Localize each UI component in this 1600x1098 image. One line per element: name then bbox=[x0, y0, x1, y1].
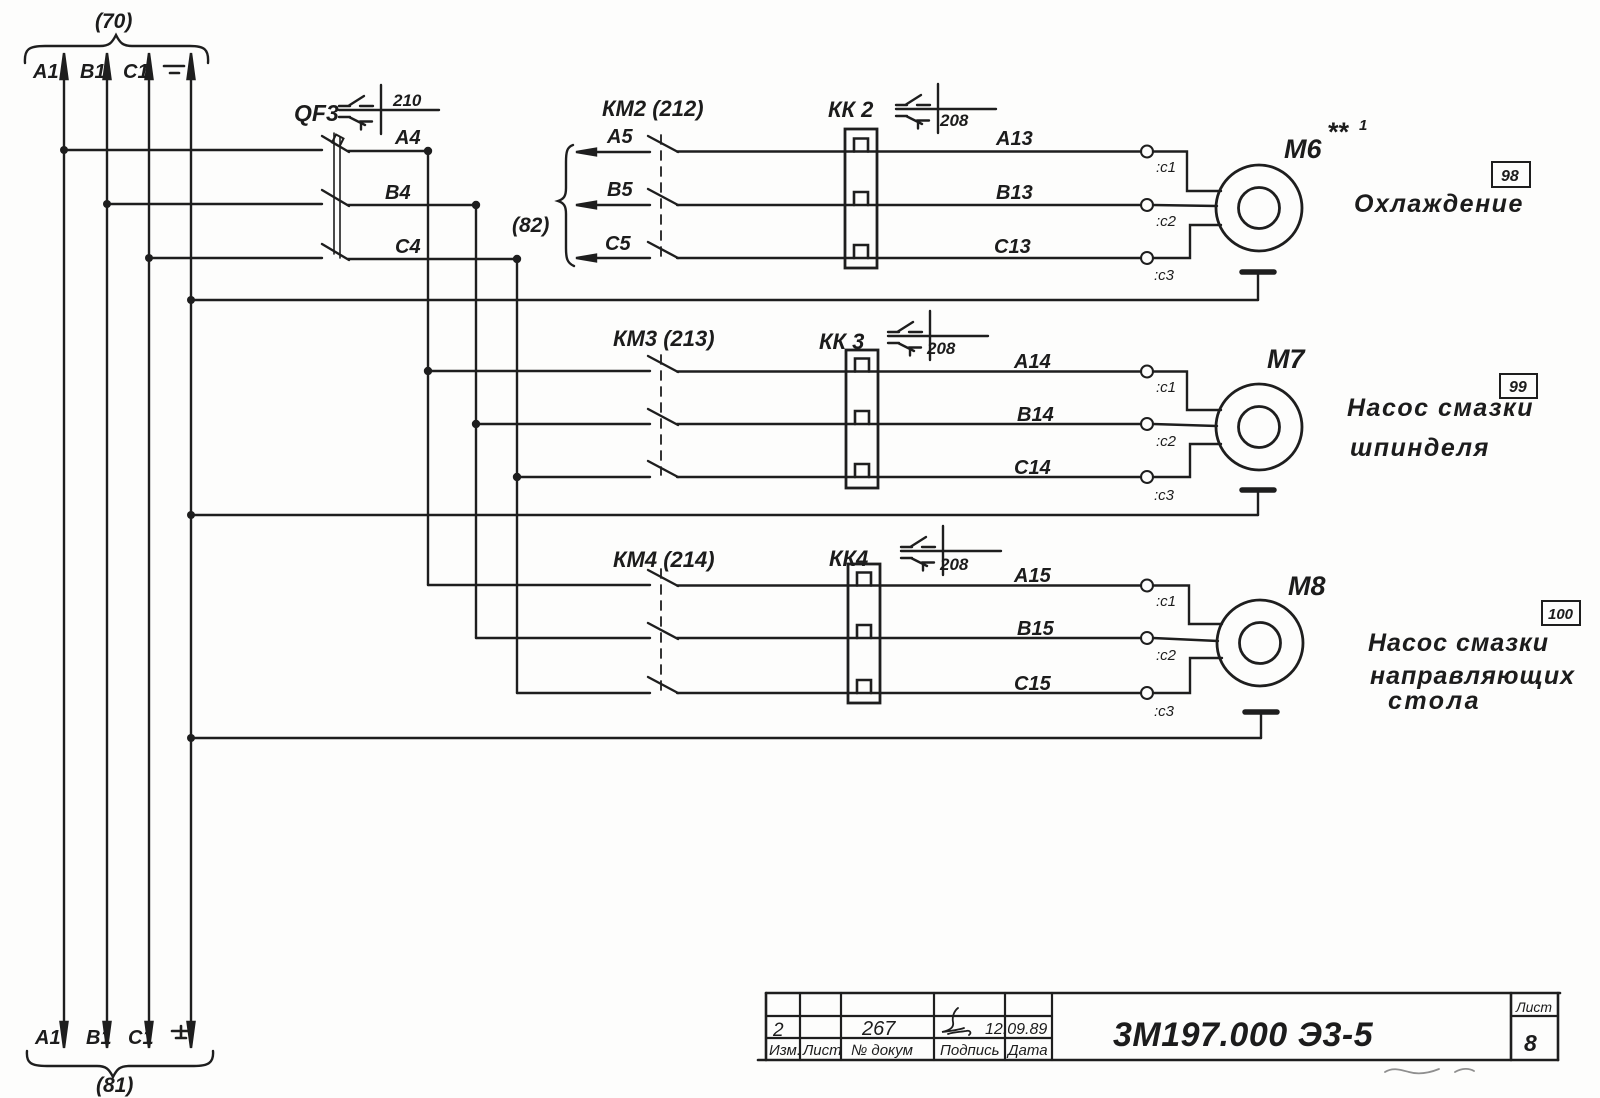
contactor KM3 pole C bbox=[648, 461, 678, 477]
KK2 reference contacts to circuit 208 bbox=[896, 84, 996, 133]
motor M6 bbox=[1216, 165, 1302, 251]
KK3 heater A bbox=[855, 359, 869, 372]
svg-text:B5: B5 bbox=[607, 179, 633, 201]
wire C1 to QF3 bbox=[149, 257, 322, 259]
terminal :c1 of M6 bbox=[1141, 146, 1153, 158]
M8 frame ground bbox=[1245, 712, 1277, 738]
svg-text:210: 210 bbox=[392, 91, 422, 110]
KK2 heater B bbox=[854, 192, 868, 205]
svg-text:С5: С5 bbox=[605, 233, 631, 255]
svg-text:C1: C1 bbox=[123, 61, 149, 83]
svg-text:КМ3 (213): КМ3 (213) bbox=[613, 326, 715, 351]
svg-text:Изм.: Изм. bbox=[769, 1042, 801, 1059]
ground symbol bottom bbox=[172, 1026, 190, 1038]
wire B1 to QF3 bbox=[107, 203, 322, 205]
node C4 corner bbox=[513, 255, 521, 263]
thermal relay KK2 body bbox=[845, 129, 877, 268]
thermal relay KK3 body bbox=[846, 350, 878, 488]
wire PE to M7 ground bbox=[191, 514, 1258, 516]
KK3 reference contacts to circuit 208 bbox=[888, 311, 988, 360]
title block signature bbox=[942, 1008, 970, 1035]
wire B5 with arrow bbox=[576, 202, 650, 209]
KM4 linkage dashed bbox=[660, 569, 662, 691]
KK4 heater A bbox=[857, 573, 871, 586]
terminal :c2 of M7 bbox=[1141, 418, 1153, 430]
svg-text:КМ4 (214): КМ4 (214) bbox=[613, 547, 715, 572]
node (82) brace bbox=[558, 145, 574, 266]
box 100 bbox=[1542, 601, 1580, 625]
svg-text:М6: М6 bbox=[1284, 134, 1322, 164]
svg-text:КК 3: КК 3 bbox=[819, 329, 864, 354]
faint stamp handwriting bbox=[1385, 1069, 1474, 1074]
svg-text:B13: B13 bbox=[996, 182, 1033, 204]
wire A15 right bbox=[677, 584, 1141, 586]
wire terminal c3 to motor M7 bbox=[1153, 444, 1221, 477]
svg-text:КК 2: КК 2 bbox=[828, 97, 874, 122]
node PE junction row1 bbox=[187, 296, 195, 304]
svg-text::c2: :c2 bbox=[1156, 213, 1177, 230]
terminal :c2 of M8 bbox=[1141, 632, 1153, 644]
wire C13 bbox=[677, 257, 1141, 259]
wire B15 right bbox=[677, 637, 1141, 639]
contactor KM4 pole A bbox=[648, 570, 678, 586]
wire C4 bbox=[348, 258, 517, 260]
svg-text:Насос смазки: Насос смазки bbox=[1368, 629, 1549, 657]
svg-text::c3: :c3 bbox=[1154, 703, 1175, 720]
node (70) brace top bbox=[25, 35, 208, 63]
node (81) brace bottom bbox=[27, 1051, 213, 1077]
KM2 linkage dashed bbox=[660, 135, 662, 256]
svg-text::c2: :c2 bbox=[1156, 647, 1177, 664]
svg-text:A1: A1 bbox=[32, 61, 59, 83]
contactor KM2 pole B bbox=[648, 189, 678, 205]
KK3 heater B bbox=[855, 411, 869, 424]
node A14 junction bbox=[424, 367, 432, 375]
wire terminal c1 to motor M8 bbox=[1153, 586, 1222, 625]
contactor KM4 pole B bbox=[648, 623, 678, 639]
svg-text::c1: :c1 bbox=[1156, 159, 1176, 176]
svg-text:B1: B1 bbox=[80, 61, 106, 83]
svg-text::c2: :c2 bbox=[1156, 433, 1177, 450]
svg-text:М8: М8 bbox=[1288, 571, 1326, 601]
wire terminal c2 to motor M6 bbox=[1153, 205, 1217, 206]
svg-text:М7: М7 bbox=[1267, 344, 1306, 374]
svg-text:Лист: Лист bbox=[1515, 999, 1552, 1015]
wire A13 bbox=[677, 150, 1141, 152]
KK4 reference contacts to circuit 208 bbox=[901, 526, 1001, 575]
svg-text:100: 100 bbox=[1548, 606, 1574, 623]
wire C5 with arrow bbox=[576, 255, 650, 262]
wire terminal c1 to motor M7 bbox=[1153, 372, 1221, 411]
svg-text::c1: :c1 bbox=[1156, 593, 1176, 610]
node PE junction row3 bbox=[187, 734, 195, 742]
circuit breaker QF3 pole A bbox=[322, 135, 349, 153]
svg-text:(81): (81) bbox=[96, 1074, 133, 1097]
wire terminal c3 to motor M8 bbox=[1153, 658, 1222, 693]
wire C15 right bbox=[677, 692, 1141, 694]
svg-text:B15: B15 bbox=[1017, 618, 1055, 640]
circuit breaker QF3 pole C bbox=[322, 244, 349, 260]
svg-text:C13: C13 bbox=[994, 236, 1031, 258]
node PE junction row2 bbox=[187, 511, 195, 519]
svg-text:208: 208 bbox=[939, 555, 969, 574]
M6 frame ground bbox=[1242, 272, 1274, 300]
svg-text::c1: :c1 bbox=[1156, 379, 1176, 396]
wire B4 bbox=[348, 204, 476, 206]
wire B15 left bbox=[476, 637, 650, 639]
box 98 bbox=[1492, 162, 1530, 187]
svg-text::c3: :c3 bbox=[1154, 267, 1175, 284]
circuit breaker QF3 pole B bbox=[322, 190, 349, 206]
svg-text:Дата: Дата bbox=[1006, 1042, 1048, 1059]
wire bus C1 bbox=[146, 53, 153, 1048]
contactor KM4 pole C bbox=[648, 677, 678, 693]
wire A14 right bbox=[677, 370, 1141, 372]
wire bus B1 bbox=[104, 53, 111, 1048]
svg-text:A14: A14 bbox=[1013, 351, 1051, 373]
wire A5 with arrow bbox=[576, 149, 650, 156]
title block inner lines bbox=[766, 993, 1558, 1060]
wire A4 vertical drop bbox=[427, 151, 429, 585]
wire terminal c2 to motor M7 bbox=[1153, 424, 1217, 426]
wire PE to M8 ground bbox=[191, 737, 1261, 739]
svg-text:(70): (70) bbox=[95, 10, 132, 33]
KK3 heater C bbox=[855, 464, 869, 477]
QF3 mechanical linkage bbox=[334, 133, 340, 258]
KK2 heater C bbox=[854, 245, 868, 258]
wire terminal c2 to motor M8 bbox=[1153, 638, 1218, 641]
svg-text:C1: C1 bbox=[128, 1027, 154, 1049]
svg-text:КМ2 (212): КМ2 (212) bbox=[602, 96, 704, 121]
wire C14 right bbox=[677, 476, 1141, 478]
QF3 reference contacts to circuit 210 bbox=[339, 85, 439, 134]
wire A4 bbox=[348, 150, 428, 152]
svg-text:B1: B1 bbox=[86, 1027, 112, 1049]
svg-text:12.09.89: 12.09.89 bbox=[985, 1021, 1047, 1038]
node C14 junction bbox=[513, 473, 521, 481]
thermal relay KK4 body bbox=[848, 564, 880, 703]
svg-text:**: ** bbox=[1327, 117, 1350, 147]
wire B14 right bbox=[677, 423, 1141, 425]
wire bus A1 bbox=[61, 53, 68, 1048]
svg-text:3М197.000 Э3-5: 3М197.000 Э3-5 bbox=[1113, 1016, 1374, 1054]
node A1 junction bbox=[60, 146, 68, 154]
svg-text::c3: :c3 bbox=[1154, 487, 1175, 504]
terminal :c2 of M6 bbox=[1141, 199, 1153, 211]
wire bus PE (ground) bbox=[188, 53, 195, 1048]
svg-text:QF3: QF3 bbox=[294, 100, 339, 126]
contactor KM2 pole A bbox=[648, 136, 678, 152]
svg-text:Лист: Лист bbox=[802, 1042, 842, 1059]
terminal :c1 of M8 bbox=[1141, 580, 1153, 592]
KK2 heater A bbox=[854, 139, 868, 152]
wire B13 bbox=[677, 204, 1141, 206]
svg-text:98: 98 bbox=[1501, 168, 1519, 185]
svg-text:(82): (82) bbox=[512, 214, 549, 237]
wire A15 left bbox=[428, 584, 650, 586]
M7 frame ground bbox=[1242, 490, 1274, 515]
svg-text:стола: стола bbox=[1388, 687, 1481, 715]
svg-text:A1: A1 bbox=[34, 1027, 61, 1049]
terminal :c3 of M8 bbox=[1141, 687, 1153, 699]
contactor KM3 pole A bbox=[648, 356, 678, 372]
svg-text:A15: A15 bbox=[1013, 565, 1052, 587]
ground symbol top bbox=[164, 66, 184, 73]
svg-text:№ докум: № докум bbox=[851, 1042, 913, 1059]
wire terminal c1 to motor M6 bbox=[1153, 152, 1221, 192]
svg-text:C14: C14 bbox=[1014, 457, 1051, 479]
wire C4 vertical drop bbox=[516, 259, 518, 693]
svg-text:99: 99 bbox=[1509, 379, 1527, 396]
KK4 heater B bbox=[857, 625, 871, 638]
wire C14 left bbox=[517, 476, 650, 478]
box 99 bbox=[1500, 374, 1537, 398]
svg-text:B14: B14 bbox=[1017, 404, 1054, 426]
svg-text:A5: A5 bbox=[606, 126, 633, 148]
svg-text:шпинделя: шпинделя bbox=[1350, 434, 1490, 462]
svg-text:8: 8 bbox=[1524, 1030, 1537, 1056]
svg-text:208: 208 bbox=[939, 111, 969, 130]
svg-text:1: 1 bbox=[1359, 117, 1367, 134]
node B14 junction bbox=[472, 420, 480, 428]
svg-text:267: 267 bbox=[861, 1018, 896, 1040]
wire B14 left bbox=[476, 423, 650, 425]
svg-text:A13: A13 bbox=[995, 128, 1033, 150]
KM3 linkage dashed bbox=[660, 355, 662, 475]
svg-text:КК4: КК4 bbox=[829, 546, 868, 571]
wire A14 left bbox=[428, 370, 650, 372]
svg-text:C15: C15 bbox=[1014, 673, 1052, 695]
terminal :c3 of M6 bbox=[1141, 252, 1153, 264]
KK4 heater C bbox=[857, 680, 871, 693]
svg-text:C4: C4 bbox=[395, 236, 421, 258]
node A4 corner bbox=[424, 147, 432, 155]
terminal :c1 of M7 bbox=[1141, 366, 1153, 378]
svg-text:208: 208 bbox=[926, 339, 956, 358]
svg-text:A4: A4 bbox=[394, 127, 421, 149]
node B4 corner bbox=[472, 201, 480, 209]
svg-text:B4: B4 bbox=[385, 182, 411, 204]
contactor KM3 pole B bbox=[648, 409, 678, 425]
contactor KM2 pole C bbox=[648, 242, 678, 258]
node B1 junction bbox=[103, 200, 111, 208]
svg-text:2: 2 bbox=[772, 1020, 784, 1041]
wire A1 to QF3 bbox=[64, 149, 322, 151]
title block texts bbox=[769, 999, 1552, 1059]
terminal :c3 of M7 bbox=[1141, 471, 1153, 483]
wire terminal c3 to motor M6 bbox=[1153, 225, 1221, 258]
motor M8 bbox=[1217, 600, 1303, 686]
motor M7 bbox=[1216, 384, 1302, 470]
wire B4 vertical drop bbox=[475, 205, 477, 638]
wire PE to M6 ground bbox=[191, 299, 1258, 301]
svg-text:направляющих: направляющих bbox=[1370, 662, 1575, 690]
svg-text:Подпись: Подпись bbox=[940, 1042, 1000, 1059]
wire C15 left bbox=[517, 692, 650, 694]
title block frame bbox=[758, 993, 1560, 1060]
node C1 junction bbox=[145, 254, 153, 262]
svg-text:Охлаждение: Охлаждение bbox=[1354, 190, 1524, 218]
